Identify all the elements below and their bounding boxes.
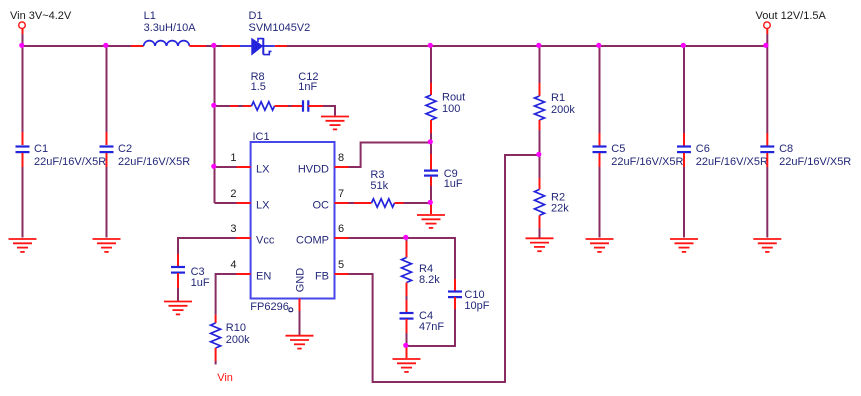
port Vin terminal (19, 22, 26, 29)
pin GND (295, 268, 307, 311)
wire C6 to ground (683, 153, 685, 238)
label R10 (226, 322, 250, 346)
inductor L1 lead right (189, 45, 206, 47)
svg-text:C2: C2 (118, 143, 132, 155)
label C12 (298, 71, 318, 93)
wire C4 to node (406, 319, 408, 346)
label R2 (551, 192, 569, 215)
wire top rail right segment (287, 45, 767, 47)
svg-text:Vin: Vin (217, 372, 233, 384)
label R1 (551, 92, 575, 116)
svg-text:GND: GND (295, 268, 307, 293)
wire node to R2 (539, 155, 541, 189)
svg-text:COMP: COMP (296, 234, 329, 246)
diode D1 (schottky) (240, 38, 275, 56)
svg-text:22uF/16V/X5R: 22uF/16V/X5R (34, 156, 106, 168)
pin 8 HVDD (298, 152, 349, 175)
svg-text:8.2k: 8.2k (419, 274, 440, 286)
label R8 (251, 71, 266, 93)
wire rail to Rout (430, 46, 432, 95)
svg-text:SVM1045V2: SVM1045V2 (249, 22, 311, 34)
svg-text:22uF/16V/X5R: 22uF/16V/X5R (611, 156, 683, 168)
wire FB to divider (349, 155, 540, 382)
svg-text:C5: C5 (611, 143, 625, 155)
svg-text:2: 2 (230, 188, 236, 200)
wire node to ground (406, 346, 408, 358)
wire C5 to ground (599, 153, 601, 238)
wire R10 lead bottom (215, 348, 217, 365)
wire R4 to C4 (406, 283, 408, 313)
wire junction down to LX pins (215, 46, 237, 203)
svg-text:200k: 200k (551, 104, 575, 116)
wire rail to R1 (539, 46, 541, 96)
label C8 (779, 143, 851, 168)
resistor R8 (252, 102, 275, 110)
op-amp IC U1 FP6296 body (251, 142, 335, 299)
resistor R3 (372, 199, 395, 207)
wire rail to C1 (22, 46, 24, 145)
pin 3 Vcc (230, 223, 274, 246)
svg-text:10pF: 10pF (464, 300, 489, 312)
wire node down to C9 (430, 143, 432, 171)
label C9 (444, 168, 463, 190)
wire C3 to ground (177, 273, 179, 301)
pin 6 COMP (296, 223, 349, 246)
label FP6296 (250, 301, 292, 313)
pin 7 OC (313, 188, 349, 211)
capacitor C4 (400, 313, 414, 319)
wire R8 to C12 (275, 105, 304, 107)
svg-text:R10: R10 (226, 322, 246, 334)
label Rout (442, 92, 465, 116)
svg-text:47nF: 47nF (419, 321, 444, 333)
resistor R10 (211, 323, 221, 348)
wire R2 to ground (539, 215, 541, 237)
svg-text:Vin 3V~4.2V: Vin 3V~4.2V (10, 10, 72, 22)
wire D1 lead right (275, 45, 287, 47)
wire to R8 (215, 105, 244, 107)
svg-text:22uF/16V/X5R: 22uF/16V/X5R (779, 156, 851, 168)
wire R1 to node (539, 120, 541, 155)
capacitor C10 (448, 292, 462, 298)
wire rail to C5 (599, 46, 601, 146)
inductor L1 lead left (131, 45, 144, 47)
wire R10 lead top (215, 315, 217, 323)
label C2 (118, 143, 190, 168)
port Vout terminal (764, 22, 771, 29)
wire C10 lead bottom (407, 297, 456, 346)
wire C1 to ground (22, 153, 24, 238)
wire COMP node to C10 branch (407, 238, 456, 279)
svg-text:Vout 12V/1.5A: Vout 12V/1.5A (756, 10, 827, 22)
svg-text:R1: R1 (551, 92, 565, 104)
ground C12 (321, 117, 349, 130)
svg-text:IC1: IC1 (253, 131, 270, 143)
svg-text:1uF: 1uF (444, 178, 463, 190)
svg-text:100: 100 (442, 103, 460, 115)
svg-text:LX: LX (256, 199, 270, 211)
pin 5 FB (315, 259, 349, 282)
inductor L1 (144, 41, 190, 46)
capacitor C5 (593, 147, 607, 153)
wire Vout terminal to rail (766, 29, 768, 46)
wire C9 to node (430, 177, 432, 203)
wire R4 lead top (406, 238, 408, 258)
label C3 (191, 266, 210, 289)
svg-text:C1: C1 (34, 143, 48, 155)
label C1 (34, 143, 106, 168)
resistor Rout (426, 95, 436, 120)
wire rail to C8 (766, 46, 768, 146)
svg-text:D1: D1 (249, 10, 263, 22)
label C6 (696, 143, 768, 168)
svg-text:22uF/16V/X5R: 22uF/16V/X5R (696, 156, 768, 168)
ground R2 (526, 238, 554, 251)
net label Vin at R10 (217, 372, 233, 384)
wire to pin 1 (215, 166, 237, 168)
ground R4 C4 (393, 359, 421, 372)
resistor R4 (402, 258, 412, 283)
wire C10 lead top (454, 279, 456, 291)
resistor R1 (535, 96, 545, 120)
ground C3 (164, 302, 192, 315)
svg-text:200k: 200k (226, 334, 250, 346)
svg-text:6: 6 (338, 223, 344, 235)
wire Vcc to C3 (178, 238, 237, 266)
label R4 (419, 263, 440, 286)
svg-text:4: 4 (230, 259, 236, 271)
svg-text:LX: LX (256, 163, 270, 175)
ground C6 (670, 239, 698, 252)
svg-text:L1: L1 (144, 10, 156, 22)
wire Vin terminal to rail (22, 29, 24, 46)
wire rail to C6 (683, 46, 685, 146)
wire C2 to ground (106, 153, 108, 238)
capacitor C1 (16, 147, 30, 153)
ground C2 (93, 239, 121, 252)
svg-text:1uF: 1uF (191, 277, 210, 289)
resistor R2 (535, 189, 545, 215)
label C4 (419, 310, 444, 333)
label C5 (611, 143, 683, 168)
wire C8 to ground (766, 153, 768, 238)
wire HVDD to Rout node (349, 143, 432, 168)
wire OC lead (349, 202, 372, 204)
svg-text:EN: EN (256, 270, 271, 282)
svg-text:22k: 22k (551, 203, 569, 215)
pin 4 EN (230, 259, 271, 282)
wire R3 to C9 node (395, 202, 432, 204)
svg-text:HVDD: HVDD (298, 163, 329, 175)
wire COMP to R4 node (349, 237, 407, 239)
ground C1 (9, 239, 37, 252)
capacitor C6 (677, 147, 691, 153)
net label Vin (10, 10, 72, 22)
capacitor C9 (424, 171, 438, 176)
svg-text:C6: C6 (696, 143, 710, 155)
svg-text:5: 5 (338, 259, 344, 271)
svg-text:7: 7 (338, 188, 344, 200)
wire R8 lead left (230, 105, 252, 107)
svg-text:1: 1 (230, 152, 236, 164)
wire junction to D1 (222, 45, 240, 47)
svg-text:OC: OC (313, 199, 330, 211)
label D1 (249, 10, 311, 34)
capacitor C2 (100, 147, 114, 153)
pin 2 LX (230, 188, 270, 211)
svg-text:FP6296: FP6296 (250, 301, 289, 313)
ground IC GND (286, 336, 314, 349)
wire Rout to node (430, 120, 432, 143)
wire GND pin to ground (299, 311, 301, 335)
svg-text:8: 8 (338, 152, 344, 164)
svg-text:1.5: 1.5 (251, 81, 266, 93)
wire C9 node to ground (430, 203, 432, 214)
wire C12 to ground (308, 106, 335, 116)
net label Vout (756, 10, 827, 22)
ground C5 (586, 239, 614, 252)
ground C8 (753, 239, 781, 252)
pin 1 LX (230, 152, 270, 175)
wire rail to C2 (106, 46, 108, 145)
capacitor C12 (303, 100, 308, 111)
svg-text:3.3uH/10A: 3.3uH/10A (144, 22, 197, 34)
capacitor C8 (760, 147, 774, 153)
label IC1 (253, 131, 270, 143)
wire L1 to junction (206, 45, 222, 47)
svg-text:Vcc: Vcc (256, 234, 275, 246)
wire EN to R10 (216, 274, 237, 315)
capacitor C3 (171, 267, 185, 273)
svg-text:3: 3 (230, 223, 236, 235)
label C10 (464, 289, 489, 312)
label R3 (370, 169, 388, 192)
svg-text:1nF: 1nF (298, 81, 317, 93)
wire top rail left segment (23, 45, 132, 47)
ground C9 (417, 215, 445, 228)
svg-text:51k: 51k (370, 180, 388, 192)
svg-text:Rout: Rout (442, 92, 465, 104)
svg-text:C8: C8 (779, 143, 793, 155)
label L1 (144, 10, 197, 34)
svg-text:22uF/16V/X5R: 22uF/16V/X5R (118, 156, 190, 168)
svg-text:FB: FB (315, 270, 329, 282)
